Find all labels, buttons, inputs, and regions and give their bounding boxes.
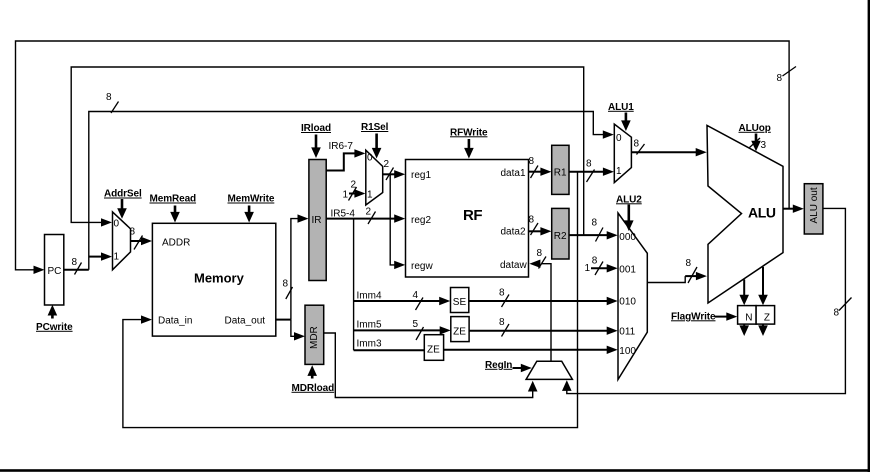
svg-text:0: 0 (616, 133, 622, 144)
svg-text:8: 8 (499, 287, 505, 298)
svg-text:ALU: ALU (748, 205, 776, 221)
wire: ZE2 output to ALU2 input 100 (444, 349, 608, 351)
flag register N (738, 306, 757, 325)
svg-text:N: N (745, 313, 752, 324)
wire: ALUout to RegIn mux right input (down right side) (567, 208, 846, 393)
svg-text:ALU out: ALU out (809, 187, 820, 223)
wire: IR6-7 to R1Sel input 0 (326, 153, 355, 170)
wire: SE output to ALU2 input 010 (469, 300, 608, 302)
node: arrowhead into PC (34, 266, 45, 274)
bus slash 8 on PC bus y=111.5 (111, 102, 119, 114)
mux R1Sel (366, 150, 383, 205)
svg-text:8: 8 (106, 92, 112, 103)
svg-text:1: 1 (367, 190, 373, 201)
svg-text:8: 8 (592, 217, 598, 228)
svg-text:001: 001 (619, 264, 636, 275)
svg-text:8: 8 (529, 156, 535, 167)
svg-text:R2: R2 (554, 231, 567, 242)
register IR (309, 160, 326, 281)
wire: R1Sel output to RF reg1 and regw (383, 173, 395, 175)
svg-text:MemRead: MemRead (150, 194, 197, 205)
register MDR (305, 305, 324, 364)
svg-text:Memory: Memory (194, 271, 245, 286)
svg-text:MDRload: MDRload (292, 383, 335, 394)
wire: flag N output (743, 324, 745, 328)
svg-text:011: 011 (619, 327, 635, 338)
wire: flag Z output (762, 324, 764, 328)
svg-text:RegIn: RegIn (485, 360, 512, 371)
svg-text:8: 8 (130, 227, 136, 238)
wire: RegIn mux output up to RF dataw (542, 264, 552, 362)
svg-text:IR: IR (312, 215, 322, 226)
ALU block (707, 125, 783, 303)
wire: MDR output to RegIn mux left input (324, 333, 533, 398)
bus slash 8 on Data_out vertical (286, 287, 293, 299)
flag register Z (756, 306, 775, 325)
wire: Memory Data_out junction to IR and MDR (276, 319, 291, 321)
svg-text:dataw: dataw (500, 260, 527, 271)
mux RegIn (526, 361, 572, 379)
mux ALU2 (618, 213, 647, 380)
control MDRload (311, 372, 314, 379)
svg-text:IRload: IRload (301, 123, 331, 134)
svg-text:4: 4 (413, 290, 419, 301)
svg-text:reg2: reg2 (411, 215, 431, 226)
mux AddrSel (113, 212, 131, 270)
svg-text:100: 100 (619, 346, 636, 357)
wire: R2 to AddrSel input 0 loop (up x=583.7, along y=67, down x=71) (71, 67, 584, 235)
svg-text:ZE: ZE (427, 345, 440, 356)
wire: ZE output to ALU2 input 011 (469, 330, 607, 332)
svg-text:8: 8 (686, 258, 692, 269)
svg-text:Data_in: Data_in (158, 316, 192, 327)
svg-text:5: 5 (413, 319, 419, 330)
svg-text:reg1: reg1 (411, 170, 431, 181)
svg-text:data2: data2 (501, 226, 526, 237)
svg-text:IR6-7: IR6-7 (329, 141, 354, 152)
svg-text:8: 8 (529, 214, 535, 225)
register R1 (552, 145, 569, 194)
svg-text:R1: R1 (554, 168, 567, 179)
wire: R1 output to ALU1 input 1, junction down to Data_in loop (569, 171, 604, 173)
svg-text:2: 2 (351, 180, 357, 191)
svg-text:Z: Z (764, 313, 770, 324)
svg-text:8: 8 (634, 138, 640, 149)
svg-text:8: 8 (777, 73, 783, 84)
wire: ALUout feedback top bus (ALUout up x=789, along y=41, down x=15 into PC) (16, 41, 790, 270)
svg-text:3: 3 (761, 140, 767, 151)
svg-text:ALU2: ALU2 (616, 194, 642, 205)
svg-text:PCwrite: PCwrite (36, 322, 73, 333)
control PCwrite (51, 311, 54, 319)
register PC (45, 235, 64, 306)
wire: Imm5 to ZE (354, 329, 441, 331)
wire: flag N input from ALU (743, 280, 745, 298)
register ALUout (804, 184, 823, 234)
svg-text:1: 1 (585, 263, 591, 274)
memory block (152, 223, 275, 336)
svg-text:AddrSel: AddrSel (104, 189, 142, 200)
svg-text:8: 8 (592, 256, 598, 267)
wire: Imm vertical from IR5-4 junction (353, 219, 355, 351)
svg-text:010: 010 (619, 297, 636, 308)
wire: data1 to R1 (529, 171, 542, 173)
svg-text:PC: PC (48, 266, 62, 277)
svg-text:1: 1 (343, 190, 349, 201)
svg-text:Imm3: Imm3 (357, 338, 382, 349)
svg-text:ADDR: ADDR (162, 237, 190, 248)
svg-text:0: 0 (114, 219, 120, 230)
zero extender ZE (Imm3) (424, 335, 443, 361)
wire: flag Z input from ALU (762, 267, 764, 298)
svg-text:SE: SE (453, 297, 467, 308)
page right border (868, 0, 870, 472)
svg-text:2: 2 (366, 207, 372, 218)
svg-text:MDR: MDR (309, 326, 320, 349)
svg-text:ZE: ZE (453, 326, 466, 337)
svg-text:RFWrite: RFWrite (450, 127, 488, 138)
svg-text:MemWrite: MemWrite (228, 194, 275, 205)
wire: AddrSel output to Memory ADDR (131, 240, 142, 242)
wire: ALU2 output to ALU bottom input (647, 276, 685, 282)
wire: R2 output to ALU2 input 000 (569, 234, 608, 236)
page bottom border (0, 469, 870, 472)
wire: R1 down to memory Data_in (long loop) (123, 172, 578, 428)
svg-text:0: 0 (367, 153, 373, 164)
sign extender SE (451, 288, 469, 313)
zero extender ZE (Imm5) (451, 317, 469, 342)
node: arrowhead into ALU1 input 0 (603, 130, 614, 138)
wire: Imm4 to SE (354, 300, 440, 302)
wire: Imm3 into ZE2 (354, 349, 425, 351)
svg-text:8: 8 (499, 317, 505, 328)
register file RF (406, 160, 529, 278)
wire: PC bus (PC out right, up x=88.8, along y=111.5 to ALU1 input 0) (64, 269, 89, 271)
svg-text:8: 8 (537, 248, 543, 259)
svg-text:1: 1 (114, 252, 120, 263)
wire: IR5-4 to RF reg2 (326, 218, 395, 220)
svg-text:FlagWrite: FlagWrite (671, 311, 716, 322)
svg-text:8: 8 (72, 257, 78, 268)
bus slash 8 on PC output (75, 263, 82, 275)
svg-text:1: 1 (616, 166, 622, 177)
svg-text:8: 8 (283, 279, 289, 290)
svg-text:Imm5: Imm5 (357, 319, 382, 330)
wire: PC to AddrSel input 1 stub (89, 256, 101, 258)
svg-text:8: 8 (586, 159, 592, 170)
mux ALU1 (614, 124, 631, 183)
svg-text:000: 000 (619, 232, 636, 243)
svg-text:Imm4: Imm4 (357, 290, 382, 301)
svg-text:ALU1: ALU1 (608, 102, 634, 113)
svg-text:8: 8 (834, 308, 840, 319)
svg-text:IR5-4: IR5-4 (331, 209, 356, 220)
node: arrowhead into AddrSel input 1 (101, 252, 112, 260)
wire: data2 to R2 (529, 230, 542, 232)
wire: ALU1 output to ALU top input (631, 151, 696, 153)
node: arrowhead into AddrSel input 0 (101, 218, 112, 226)
svg-text:regw: regw (411, 261, 433, 272)
svg-text:Data_out: Data_out (225, 316, 266, 327)
svg-text:ALUop: ALUop (739, 123, 771, 134)
svg-text:2: 2 (384, 159, 390, 170)
svg-text:data1: data1 (501, 168, 526, 179)
svg-text:RF: RF (463, 207, 482, 224)
wire: ALU output to ALUout (783, 208, 794, 210)
svg-text:R1Sel: R1Sel (361, 122, 389, 133)
bus slash 8 on x=789 vertical (783, 67, 797, 77)
register R2 (552, 208, 569, 259)
